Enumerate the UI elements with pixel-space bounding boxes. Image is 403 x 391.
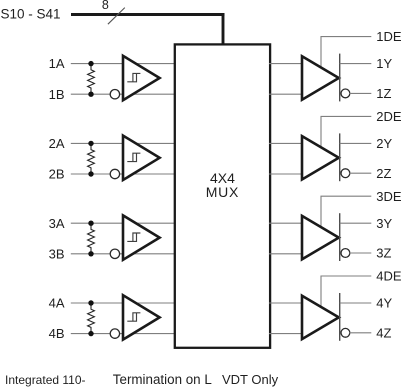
differential output stub bar 4 xyxy=(339,293,341,341)
schmitt-trigger receiver U1 xyxy=(123,56,160,100)
wire 2B xyxy=(71,173,176,175)
wire 3A xyxy=(71,222,176,224)
schmitt-trigger receiver U3 xyxy=(123,215,160,259)
svg-text:1B: 1B xyxy=(49,87,65,102)
svg-text:4DE: 4DE xyxy=(376,269,402,284)
wire mux to driver 2 (bottom) xyxy=(269,173,302,175)
svg-text:2Z: 2Z xyxy=(376,166,391,181)
bus wire (8-bit select bus into MUX) xyxy=(71,13,225,16)
termination resistor R3 (110 ohm) xyxy=(88,225,95,252)
svg-text:4Y: 4Y xyxy=(376,296,392,311)
wire 3Y xyxy=(340,222,372,224)
wire 4B xyxy=(71,333,176,335)
junction node dot 1B xyxy=(88,92,93,97)
schmitt-trigger receiver U2 xyxy=(123,136,160,180)
wire mux to driver 4 (bottom) xyxy=(269,333,302,335)
line driver U7 xyxy=(302,216,339,259)
termination resistor R2 (110 ohm) xyxy=(88,145,95,172)
junction node dot 1A xyxy=(88,61,93,66)
junction node dot 4B xyxy=(88,331,93,336)
svg-text:Integrated 110-: Integrated 110- xyxy=(5,373,86,387)
hysteresis symbol xyxy=(127,313,140,321)
enable wire 1DE xyxy=(321,37,371,70)
wire 2Y xyxy=(340,142,372,144)
wire mux to driver 1 (top) xyxy=(269,63,302,65)
wire 4Y xyxy=(340,302,372,304)
wire 1Y xyxy=(340,63,372,65)
inverting input bubble on 3B xyxy=(110,249,119,258)
svg-text:8: 8 xyxy=(102,0,109,12)
enable wire 4DE xyxy=(321,276,371,309)
4x4 crosspoint mux U9 xyxy=(175,44,270,347)
svg-text:4B: 4B xyxy=(49,326,65,341)
differential output stub bar 3 xyxy=(339,213,341,261)
inverting output bubble 2Z xyxy=(341,169,350,178)
svg-text:4Z: 4Z xyxy=(376,325,391,340)
differential output stub bar 2 xyxy=(339,133,341,181)
wire 1Z xyxy=(349,92,371,94)
svg-text:2B: 2B xyxy=(49,167,65,182)
wire mux to driver 4 (top) xyxy=(269,302,302,304)
termination resistor R4 (110 ohm) xyxy=(88,305,95,332)
enable wire 2DE xyxy=(321,116,371,149)
line driver U5 xyxy=(302,56,339,99)
termination resistor R1 (110 ohm) xyxy=(88,66,95,93)
svg-text:VDT Only: VDT Only xyxy=(222,372,279,387)
hysteresis symbol xyxy=(127,73,140,81)
hysteresis symbol xyxy=(127,153,140,161)
svg-text:1A: 1A xyxy=(49,56,65,71)
differential output stub bar 1 xyxy=(339,54,341,102)
svg-text:4A: 4A xyxy=(49,296,65,311)
wire mux to driver 1 (bottom) xyxy=(269,93,302,95)
wire 1A xyxy=(71,63,176,65)
svg-text:2A: 2A xyxy=(49,136,65,151)
inverting output bubble 4Z xyxy=(341,328,350,337)
svg-text:3Z: 3Z xyxy=(376,246,391,261)
line driver U6 xyxy=(302,136,339,179)
wire 4Z xyxy=(349,332,371,334)
junction node dot 2A xyxy=(88,141,93,146)
svg-text:1DE: 1DE xyxy=(376,29,402,44)
svg-text:1Z: 1Z xyxy=(376,86,391,101)
inverting input bubble on 4B xyxy=(110,329,119,338)
inverting output bubble 1Z xyxy=(341,89,350,98)
junction node dot 2B xyxy=(88,171,93,176)
wire mux to driver 3 (bottom) xyxy=(269,253,302,255)
svg-text:MUX: MUX xyxy=(206,184,240,200)
wire 3B xyxy=(71,253,176,255)
line driver U8 xyxy=(302,296,339,339)
inverting output bubble 3Z xyxy=(341,249,350,258)
svg-text:S10 - S41: S10 - S41 xyxy=(1,6,61,21)
wire 2A xyxy=(71,142,176,144)
bus width slash xyxy=(108,8,125,25)
wire 3Z xyxy=(349,252,371,254)
wire 1B xyxy=(71,93,176,95)
svg-text:Termination on L: Termination on L xyxy=(113,372,212,387)
junction node dot 3A xyxy=(88,221,93,226)
svg-text:1Y: 1Y xyxy=(376,56,392,71)
svg-text:2Y: 2Y xyxy=(376,136,392,151)
svg-text:3A: 3A xyxy=(49,216,65,231)
svg-text:3Y: 3Y xyxy=(376,216,392,231)
wire 2Z xyxy=(349,172,371,174)
svg-text:2DE: 2DE xyxy=(376,109,402,124)
inverting input bubble on 1B xyxy=(110,90,119,99)
svg-text:3B: 3B xyxy=(49,246,65,261)
hysteresis symbol xyxy=(127,233,140,241)
schmitt-trigger receiver U4 xyxy=(123,295,160,339)
junction node dot 3B xyxy=(88,251,93,256)
junction node dot 4A xyxy=(88,300,93,305)
wire mux to driver 3 (top) xyxy=(269,222,302,224)
enable wire 3DE xyxy=(321,196,371,229)
inverting input bubble on 2B xyxy=(110,169,119,178)
wire 4A xyxy=(71,302,176,304)
wire mux to driver 2 (top) xyxy=(269,142,302,144)
svg-text:3DE: 3DE xyxy=(376,189,402,204)
